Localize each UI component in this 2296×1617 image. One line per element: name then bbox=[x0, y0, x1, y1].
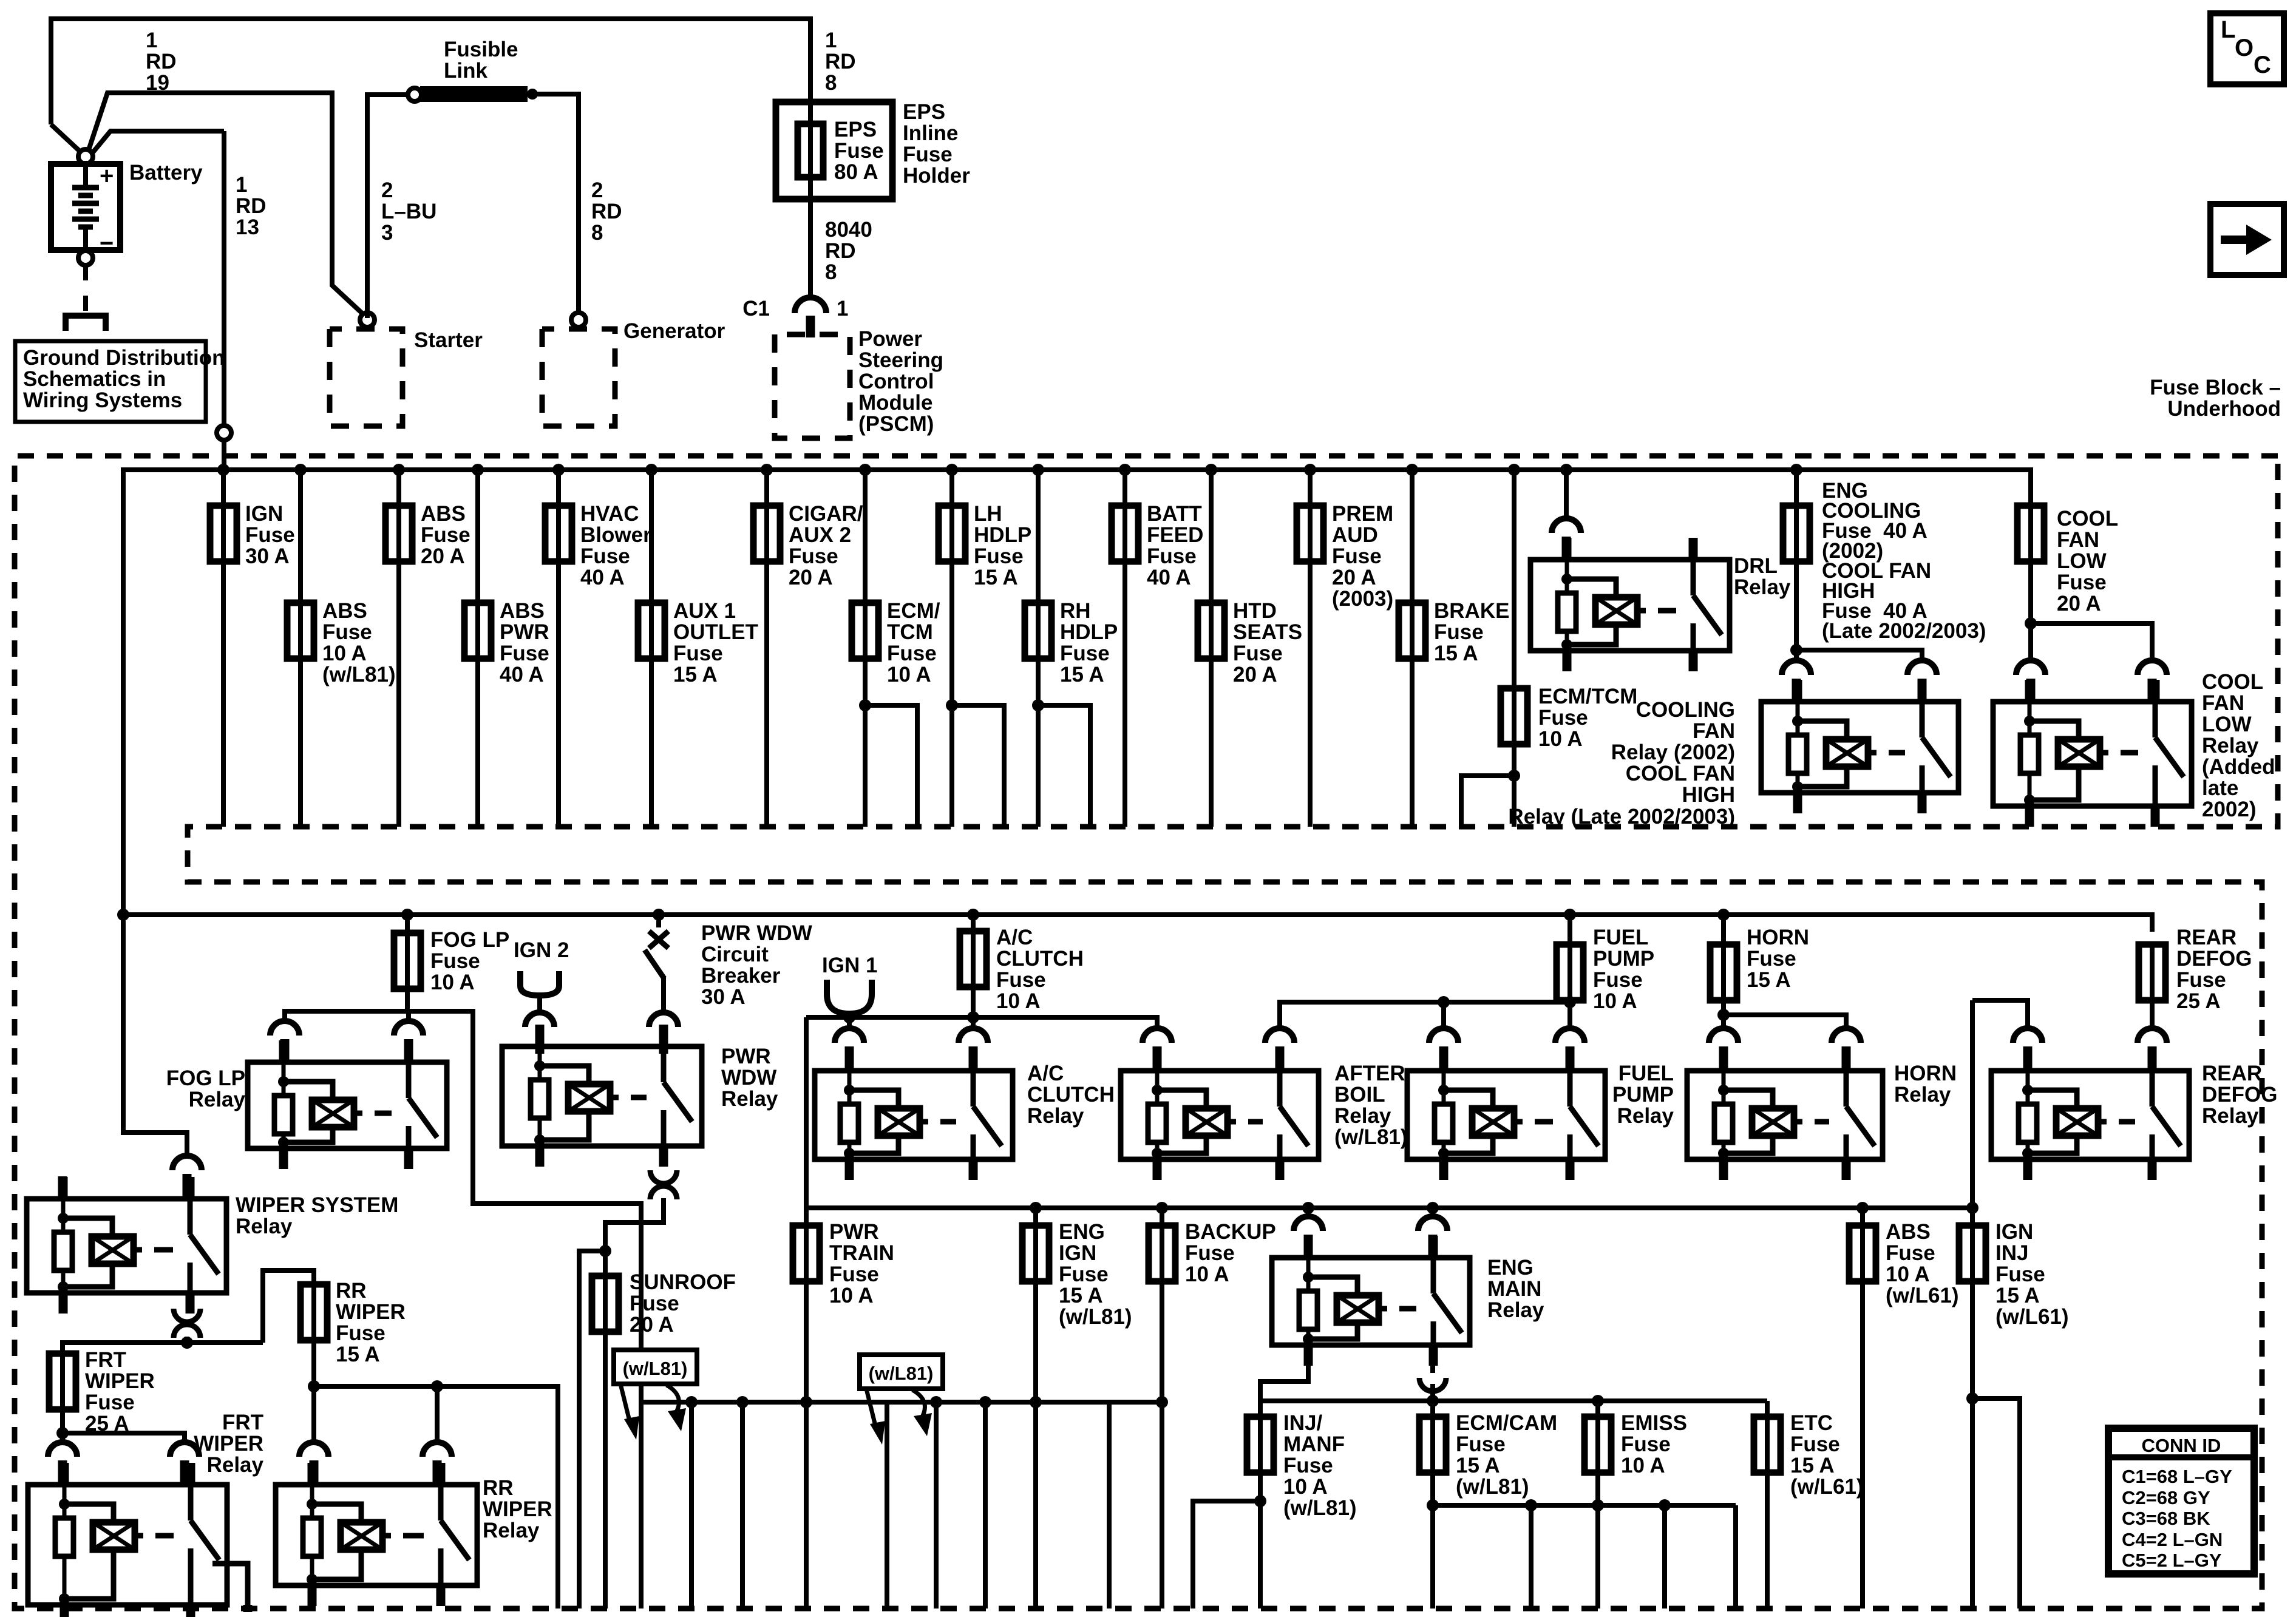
svg-text:+: + bbox=[100, 163, 114, 189]
wire ABS fuse 20A drop bbox=[396, 470, 401, 827]
svg-text:C4=2 L–GN: C4=2 L–GN bbox=[2122, 1529, 2223, 1550]
connector FRT WIPER coil pin bbox=[48, 1442, 77, 1457]
wire HVAC blower fuse 40A drop bbox=[556, 470, 561, 827]
FRT WIPER aux contact bbox=[212, 1564, 248, 1605]
svg-text:ABSPWRFuse40 A: ABSPWRFuse40 A bbox=[500, 599, 549, 686]
wire battery ground stub bbox=[83, 265, 88, 280]
fuse HVAC blower fuse 40A bbox=[545, 506, 572, 561]
connector RR WIPER switch pin bbox=[423, 1442, 452, 1457]
wire rr wiper switch drop bbox=[435, 1386, 440, 1441]
connector REAR DEFOG coil pin bbox=[2013, 1028, 2042, 1043]
fuse SUNROOF 20A bbox=[592, 1276, 619, 1332]
wire eng main coil feed bbox=[1306, 1208, 1311, 1215]
junction splice2 c bbox=[979, 1396, 991, 1408]
wire feed circle to bus1 bbox=[222, 440, 226, 470]
relay FRT WIPER bbox=[28, 1463, 227, 1617]
junction rr wiper switch tee bbox=[431, 1380, 443, 1392]
wire AC clutch splice bbox=[806, 1017, 1157, 1028]
wire splice5 drop b bbox=[1662, 1505, 1667, 1609]
fuse ETC 15A bbox=[1754, 1417, 1781, 1473]
junction pwr train splice bbox=[800, 1396, 812, 1408]
junction bus1 ABS fuse 10A bbox=[294, 464, 307, 476]
callout w L81 box 1 bbox=[614, 1350, 697, 1384]
connector HORN coil pin bbox=[1709, 1028, 1738, 1043]
wire rr wiper tail bbox=[311, 1340, 316, 1441]
node fusible link right bbox=[527, 89, 538, 100]
junction cool fan low out bbox=[2025, 617, 2037, 629]
wire CIGAR AUX2 fuse 20A drop bbox=[764, 470, 769, 827]
svg-text:Relay (Late 2002/2003): Relay (Late 2002/2003) bbox=[1508, 805, 1735, 829]
circuit breaker PWR WDW bbox=[656, 915, 661, 927]
wire ecm cam drop bbox=[1430, 1401, 1435, 1609]
bus 1 bbox=[123, 470, 2031, 915]
connector IGN 2 bbox=[520, 971, 559, 995]
fuse COOL FAN LOW 20A bbox=[2017, 506, 2044, 561]
junction bus1 ABS PWR fuse 40A bbox=[472, 464, 484, 476]
wire cool fan low drop bbox=[2028, 561, 2033, 659]
junction bus3 ENG IGN bbox=[1030, 1202, 1042, 1214]
connector HORN switch pin bbox=[1832, 1028, 1861, 1043]
wire FOG LP switch top bbox=[406, 1011, 411, 1020]
svg-text:EPSFuse80 A: EPSFuse80 A bbox=[834, 118, 884, 184]
wire ground dash bbox=[83, 296, 88, 311]
junction bus1 ECM TCM fuse bbox=[859, 464, 871, 476]
junction bus2 FUEL PUMP bbox=[1564, 909, 1576, 921]
connector cool fan low coil pin bbox=[2016, 660, 2045, 675]
junction sunroof feed bbox=[599, 1245, 611, 1257]
svg-text:ABSFuse20 A: ABSFuse20 A bbox=[421, 502, 470, 568]
wire sunroof tail bbox=[603, 1331, 608, 1609]
wire cooling fan relay switch feed bbox=[1796, 650, 1922, 659]
wire BRAKE fuse 15A drop bbox=[1410, 470, 1415, 827]
junction bus2 FOG LP bbox=[401, 909, 413, 921]
wire FUEL PUMP fuse drop bbox=[1567, 915, 1572, 1028]
wire ign inj branch bbox=[1972, 1398, 2020, 1609]
EPS inline fuse holder box bbox=[776, 102, 892, 199]
svg-text:C: C bbox=[2254, 52, 2271, 78]
wire AC clutch fuse drop bbox=[971, 915, 976, 1028]
wire ABS PWR fuse 40A drop bbox=[475, 470, 480, 827]
arrow w L81 left 1 bbox=[620, 1384, 630, 1423]
fuse BACKUP 10A bbox=[1149, 1225, 1175, 1281]
connector IGN 1 bbox=[827, 980, 872, 1014]
wire 1 RD 13 vertical bbox=[222, 131, 226, 425]
junction ign inj top bbox=[1966, 1202, 1978, 1214]
junction bus1 AUX 1 outlet fuse 15A bbox=[645, 464, 657, 476]
wire ign inj drop bbox=[1970, 1208, 1975, 1609]
junction bus1 HVAC blower fuse 40A bbox=[552, 464, 565, 476]
wire rear defog coil feed bbox=[1972, 1000, 2028, 1028]
junction bus1 PREM AUD fuse 20A bbox=[1304, 464, 1316, 476]
wire ECM TCM 2 drop bbox=[1512, 470, 1517, 827]
node generator terminal bbox=[571, 313, 586, 327]
junction inj manf out bbox=[1254, 1495, 1266, 1507]
junction frt wiper out bbox=[56, 1427, 69, 1439]
connector ENG MAIN switch pin bbox=[1418, 1216, 1447, 1231]
wire fusible link to generator bbox=[532, 94, 579, 312]
wire ECM TCM drop bbox=[863, 470, 868, 827]
bus 2 bbox=[123, 915, 2152, 932]
junction splice2 eng ign bbox=[1030, 1396, 1042, 1408]
connector AFTER BOIL coil pin bbox=[1143, 1028, 1172, 1043]
wire RH HDLP drop bbox=[1036, 470, 1041, 827]
fuse RH HDLP 15A bbox=[1025, 603, 1051, 659]
svg-text:C3=68 BK: C3=68 BK bbox=[2122, 1508, 2210, 1529]
fuse REAR DEFOG 25A bbox=[2139, 944, 2165, 1000]
ground distribution box bbox=[15, 341, 206, 422]
wire battery to starter bbox=[88, 93, 367, 318]
connector PWR WDW output bbox=[650, 1170, 677, 1184]
fuse ABS 10A L61 bbox=[1849, 1225, 1876, 1281]
node fusible link left bbox=[408, 88, 421, 101]
wire FOG LP out bbox=[285, 1011, 407, 1021]
relay AFTER BOIL bbox=[1121, 1049, 1319, 1180]
wire frt wiper tail bbox=[60, 1409, 65, 1441]
relay ENG MAIN bbox=[1272, 1236, 1470, 1366]
generator dashed box bbox=[542, 329, 615, 426]
junction bus1 HTD SEATS fuse 20A bbox=[1205, 464, 1217, 476]
wire eng ign drop bbox=[1033, 1208, 1038, 1609]
junction bus3 eng main coil bbox=[1302, 1202, 1314, 1214]
wire FOG LP out right bbox=[407, 1011, 641, 1402]
wire rr wiper switch feed bbox=[314, 1386, 558, 1609]
fuse FRT WIPER 25A bbox=[49, 1354, 76, 1409]
junction abs fuse top bbox=[1856, 1202, 1869, 1214]
svg-text:L: L bbox=[2221, 16, 2235, 43]
connector AC CLUTCH coil pin bbox=[835, 1028, 864, 1043]
wire 1 RD 13 to fuse block bbox=[90, 131, 224, 156]
wire ENG COOLING drop bbox=[1794, 470, 1799, 659]
connector cooling fan relay coil pin bbox=[1782, 660, 1811, 675]
fuse PREM AUD fuse 20A bbox=[1297, 506, 1323, 561]
fuse INJ MANF 10A bbox=[1247, 1417, 1274, 1473]
splice 3 bbox=[1260, 1398, 1767, 1403]
node battery negative terminal bbox=[78, 251, 93, 265]
relay FUEL PUMP bbox=[1407, 1049, 1605, 1180]
connector C1 arc bbox=[795, 297, 826, 313]
wire ECM TCM jog bbox=[865, 705, 917, 827]
fuse ABS PWR fuse 40A bbox=[464, 603, 491, 659]
junction bus1 CIGAR AUX2 fuse 20A bbox=[761, 464, 773, 476]
wire after boil switch feed bbox=[1280, 1002, 1570, 1028]
svg-text:HORNRelay: HORNRelay bbox=[1894, 1062, 1957, 1107]
connector RR WIPER coil pin bbox=[299, 1442, 328, 1457]
wire LH HDLP drop bbox=[949, 470, 954, 827]
fuse FUEL PUMP 10A bbox=[1557, 944, 1583, 1000]
connector FUEL PUMP switch pin bbox=[1555, 1028, 1584, 1043]
fuse AUX 1 outlet fuse 15A bbox=[638, 603, 665, 659]
svg-text:Starter: Starter bbox=[414, 328, 483, 352]
WIPER SYSTEM coil top stub bbox=[58, 1176, 67, 1199]
fuse ABS fuse 20A bbox=[385, 506, 412, 561]
junction bus2 left bbox=[117, 909, 129, 921]
wire eng main switch feed bbox=[1430, 1208, 1435, 1215]
EPS fuse 80A bbox=[798, 124, 823, 177]
junction bus1 RH HDLP bbox=[1032, 464, 1044, 476]
callout w L81 box 2 bbox=[860, 1355, 943, 1389]
relay AC CLUTCH bbox=[815, 1049, 1013, 1180]
svg-text:IGN 2: IGN 2 bbox=[514, 938, 569, 962]
wire RH HDLP jog bbox=[1038, 705, 1090, 827]
wire eng main switch out bbox=[1430, 1366, 1435, 1373]
relay WIPER SYSTEM bbox=[27, 1177, 226, 1314]
wire AC coil drop bbox=[847, 1017, 852, 1028]
connector ENG MAIN coil pin bbox=[1294, 1216, 1323, 1231]
wire battery junction diagonal bbox=[51, 124, 86, 157]
connector DRL coil pin bbox=[1552, 518, 1581, 533]
junction bus2 HORN bbox=[1717, 909, 1730, 921]
wire splice2 left branch drop bbox=[1107, 1402, 1112, 1609]
wire inj manf branch bbox=[1193, 1501, 1260, 1609]
arrow icon box bbox=[2210, 204, 2284, 275]
svg-text:C2=68 GY: C2=68 GY bbox=[2122, 1487, 2210, 1508]
junction emiss splice5 bbox=[1592, 1499, 1604, 1511]
CONN ID table bbox=[2108, 1428, 2254, 1574]
PSCM dashed box bbox=[775, 334, 850, 438]
connector WIPER SYSTEM switch pin bbox=[172, 1156, 202, 1170]
svg-text:(w/L81): (w/L81) bbox=[869, 1363, 934, 1384]
wire fuel pump coil drop bbox=[1441, 1002, 1446, 1028]
junction bus2 PWR WDW breaker bbox=[653, 909, 665, 921]
relay PWR WDW bbox=[502, 1025, 702, 1167]
connector cool fan low switch pin bbox=[2138, 660, 2167, 675]
fuse ECM TCM 10A second bbox=[1501, 688, 1527, 744]
connector PWR WDW coil pin bbox=[525, 1012, 554, 1027]
svg-text:PWRWDWRelay: PWRWDWRelay bbox=[721, 1045, 778, 1111]
wire EPS fuse internal bbox=[808, 102, 813, 199]
junction ECM TCM 2 jog bbox=[1508, 770, 1520, 782]
fuse LH HDLP 15A bbox=[939, 506, 965, 561]
wire ABS fuse 10A drop bbox=[298, 470, 303, 827]
svg-text:IGN 1: IGN 1 bbox=[822, 954, 877, 977]
LOC icon box bbox=[2210, 13, 2284, 84]
fuse HORN 15A bbox=[1710, 944, 1737, 1000]
wire splice5 drop a bbox=[1529, 1505, 1533, 1609]
wire IGN fuse 30A drop bbox=[221, 470, 226, 827]
fuse CIGAR AUX2 fuse 20A bbox=[753, 506, 780, 561]
junction splice3 emiss bbox=[1592, 1395, 1604, 1407]
wire inj manf tail2 bbox=[1258, 1473, 1263, 1609]
splice 1 bbox=[641, 1400, 1162, 1405]
relay FOG LP bbox=[248, 1040, 447, 1169]
wire splice2 drop a bbox=[885, 1402, 889, 1609]
svg-text:(w/L81): (w/L81) bbox=[623, 1358, 688, 1379]
wire pwr train fuse drop bbox=[804, 1208, 809, 1609]
svg-text:CONN ID: CONN ID bbox=[2142, 1435, 2221, 1456]
fuse HTD SEATS fuse 20A bbox=[1198, 603, 1224, 659]
wire BATT FEED fuse 40A drop bbox=[1123, 470, 1127, 827]
connector ENG MAIN switch output arc bbox=[1419, 1378, 1446, 1391]
wire eng main coil out bbox=[1260, 1366, 1308, 1415]
junction splice5 a bbox=[1525, 1499, 1537, 1511]
junction AC splice ign1 bbox=[843, 1011, 855, 1023]
connector FOG LP coil pin bbox=[270, 1021, 299, 1036]
junction bus1 IGN fuse 30A bbox=[217, 464, 229, 476]
wire cool fan low switch feed bbox=[2031, 623, 2152, 659]
fusible link bbox=[420, 86, 528, 102]
connector FUEL PUMP coil pin bbox=[1429, 1028, 1458, 1043]
wire splice1 drop c bbox=[740, 1402, 745, 1609]
fuse AC CLUTCH 10A bbox=[960, 931, 987, 987]
connector FOG LP switch pin bbox=[394, 1021, 423, 1036]
arrow w L81 right 2 bbox=[912, 1390, 925, 1419]
junction bus1 DRL relay bbox=[1560, 464, 1572, 476]
fuse PWR TRAIN 10A bbox=[793, 1225, 820, 1281]
svg-text:Fuse Block –Underhood: Fuse Block –Underhood bbox=[2150, 376, 2281, 421]
relay COOL FAN LOW bbox=[1993, 680, 2192, 827]
wire ECM TCM 2 jog bbox=[1461, 776, 1514, 827]
wire splice2 drop c bbox=[983, 1402, 988, 1609]
wire DRL coil feed bbox=[1564, 470, 1569, 517]
junction AC splice fuse bbox=[967, 1011, 979, 1023]
wire wiper out left bbox=[63, 1343, 187, 1352]
node battery positive terminal bbox=[78, 149, 93, 164]
svg-text:C1: C1 bbox=[742, 297, 770, 320]
wire HORN fuse drop bbox=[1721, 915, 1726, 1028]
wire rear defog fuse tail bbox=[2150, 1000, 2155, 1028]
wire horn switch feed bbox=[1724, 1015, 1846, 1028]
wire ign inj riser bbox=[1970, 1000, 1975, 1208]
wire battery feed top bbox=[51, 19, 810, 124]
relay HORN bbox=[1687, 1049, 1883, 1180]
wire abs l61 drop bbox=[1860, 1208, 1865, 1609]
wire left vertical to wiper relay bbox=[123, 915, 187, 1154]
junction LH HDLP jog bbox=[946, 699, 958, 711]
junction bus1 ENG COOLING bbox=[1790, 464, 1802, 476]
bus 3 bbox=[806, 1205, 1972, 1210]
svg-text:C1=68 L–GY: C1=68 L–GY bbox=[2122, 1466, 2232, 1487]
wire fusible link left bbox=[367, 95, 407, 318]
wire EPS fuse to PSCM bbox=[808, 199, 813, 299]
wire HTD SEATS fuse 20A drop bbox=[1209, 470, 1214, 827]
wire PREM AUD fuse 20A drop bbox=[1308, 470, 1313, 827]
wire LH HDLP jog bbox=[952, 705, 1004, 827]
fuse ENG IGN 15A bbox=[1022, 1225, 1049, 1281]
wire emiss drop bbox=[1595, 1401, 1600, 1609]
fuse FOG LP 10A bbox=[394, 933, 421, 989]
junction splice1 b bbox=[736, 1396, 749, 1408]
relay COOLING FAN bbox=[1761, 680, 1958, 813]
wire splice2 drop b bbox=[934, 1402, 939, 1609]
relay REAR DEFOG bbox=[1991, 1049, 2189, 1180]
svg-text:1: 1 bbox=[837, 297, 848, 320]
junction bus1 BATT FEED fuse 40A bbox=[1119, 464, 1131, 476]
junction splice1 a bbox=[685, 1396, 698, 1408]
connector FRT WIPER switch pin bbox=[170, 1442, 199, 1457]
fuse IGN INJ 15A bbox=[1959, 1225, 1986, 1281]
arrow w L81 right 1 bbox=[667, 1385, 679, 1414]
svg-text:Battery: Battery bbox=[129, 161, 203, 185]
wire splice2 left branch bbox=[1109, 1400, 1162, 1405]
fuse ABS fuse 10A bbox=[287, 603, 314, 659]
junction fuel pump out bbox=[1564, 996, 1576, 1008]
ground symbol bbox=[66, 316, 106, 331]
svg-text:C5=2 L–GY: C5=2 L–GY bbox=[2122, 1550, 2222, 1571]
junction horn out bbox=[1717, 1009, 1730, 1021]
connector AFTER BOIL switch pin bbox=[1265, 1028, 1294, 1043]
wire eng main switch out2 bbox=[1430, 1384, 1435, 1401]
fuse ENG COOLING 40A bbox=[1783, 506, 1810, 561]
node feed entering fuse block bbox=[217, 425, 231, 440]
connector REAR DEFOG switch pin bbox=[2138, 1028, 2167, 1043]
splice 5 bbox=[1433, 1503, 1736, 1508]
wire frt wiper switch feed bbox=[63, 1433, 185, 1441]
junction ECM TCM jog bbox=[859, 699, 871, 711]
connector cooling fan relay switch pin bbox=[1907, 660, 1937, 675]
fuse BATT FEED fuse 40A bbox=[1112, 506, 1138, 561]
node starter terminal bbox=[360, 313, 375, 327]
wire inj manf tail bbox=[1258, 1415, 1263, 1417]
wire AC out to bus3 bbox=[804, 1017, 809, 1224]
junction bus1 ECM TCM fuse 2 bbox=[1508, 464, 1520, 476]
junction rr wiper out bbox=[308, 1380, 320, 1392]
wire etc drop bbox=[1765, 1401, 1770, 1609]
junction ENG COOLING out bbox=[1790, 644, 1802, 656]
junction bus1 BRAKE fuse 15A bbox=[1406, 464, 1418, 476]
junction wiper out bbox=[181, 1337, 193, 1349]
wire wiper system output bbox=[185, 1337, 189, 1341]
starter dashed box bbox=[330, 329, 402, 426]
svg-text:O: O bbox=[2235, 35, 2254, 61]
wire wiper out right bbox=[187, 1340, 263, 1345]
connector WIPER SYSTEM output bbox=[174, 1309, 200, 1322]
wire PWR WDW output bbox=[605, 1198, 664, 1277]
fuse ECM CAM 15A bbox=[1419, 1417, 1446, 1473]
connector AC CLUTCH switch pin bbox=[959, 1028, 988, 1043]
wire backup drop bbox=[1160, 1208, 1164, 1609]
junction bus1 ABS fuse 20A bbox=[393, 464, 405, 476]
svg-text:FUELPUMPRelay: FUELPUMPRelay bbox=[1612, 1062, 1674, 1128]
wire AUX 1 outlet fuse 15A drop bbox=[649, 470, 654, 827]
wire splice5 drop c bbox=[1733, 1505, 1738, 1609]
relay RR WIPER bbox=[276, 1463, 477, 1606]
battery bbox=[51, 163, 120, 257]
junction splice2 backup bbox=[1156, 1396, 1168, 1408]
wire IGN2 to PWR WDW coil bbox=[537, 994, 542, 1014]
arrow w L81 left 2 bbox=[866, 1389, 876, 1428]
junction bus1 LH HDLP bbox=[946, 464, 958, 476]
fuse BRAKE fuse 15A bbox=[1399, 603, 1425, 659]
wire sunroof left drop bbox=[579, 1251, 605, 1609]
junction fuel pump coil tap bbox=[1438, 996, 1450, 1008]
junction RH HDLP jog bbox=[1032, 699, 1044, 711]
wire rr wiper feed up bbox=[263, 1270, 314, 1343]
fuse EMISS 10A bbox=[1584, 1417, 1611, 1473]
junction splice3 ecmcam bbox=[1427, 1395, 1439, 1407]
fuse IGN fuse 30A bbox=[210, 506, 237, 561]
fuse RR WIPER 15A bbox=[301, 1284, 327, 1340]
wire FOG LP fuse drop bbox=[405, 915, 410, 1011]
svg-text:−: − bbox=[100, 230, 114, 257]
wire splice1 drop b bbox=[689, 1402, 694, 1609]
svg-text:Generator: Generator bbox=[623, 319, 725, 343]
junction splice5 b bbox=[1659, 1499, 1671, 1511]
fuse ECM TCM 10A bbox=[852, 603, 878, 659]
junction ecm cam out bbox=[1427, 1499, 1439, 1511]
junction splice2 b bbox=[930, 1396, 942, 1408]
fuse block outer dashed border bbox=[15, 456, 2278, 1609]
wire splice1 drop a bbox=[639, 1402, 644, 1609]
junction bus3 BACKUP bbox=[1156, 1202, 1168, 1214]
relay DRL bbox=[1530, 538, 1730, 671]
connector PWR WDW switch pin bbox=[649, 1012, 678, 1027]
junction bus2 AC clutch bbox=[967, 909, 979, 921]
junction ign inj branch bbox=[1966, 1392, 1978, 1405]
wire IGN1 tail bbox=[847, 1014, 852, 1017]
junction bus3 eng main switch bbox=[1427, 1202, 1439, 1214]
